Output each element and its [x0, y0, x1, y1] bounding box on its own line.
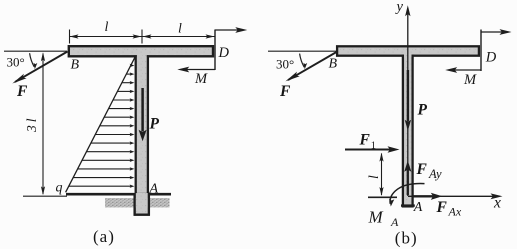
- svg-text:Ax: Ax: [448, 205, 462, 219]
- svg-text:30°: 30°: [7, 55, 25, 70]
- svg-text:B: B: [329, 57, 338, 72]
- svg-text:y: y: [395, 0, 404, 15]
- svg-text:3l: 3l: [24, 115, 39, 133]
- svg-text:F: F: [416, 161, 428, 178]
- svg-text:D: D: [485, 50, 497, 66]
- svg-text:x: x: [493, 195, 501, 212]
- svg-text:1: 1: [371, 141, 376, 152]
- svg-text:D: D: [218, 45, 230, 61]
- svg-text:P: P: [150, 116, 160, 133]
- svg-text:F: F: [359, 132, 371, 149]
- svg-text:A: A: [149, 182, 159, 197]
- svg-text:(b): (b): [395, 229, 418, 248]
- svg-text:M: M: [194, 71, 208, 87]
- svg-text:30°: 30°: [276, 57, 294, 72]
- svg-text:l: l: [178, 22, 182, 37]
- svg-text:P: P: [418, 102, 428, 119]
- svg-text:M: M: [368, 208, 384, 227]
- svg-text:(a): (a): [93, 227, 115, 246]
- svg-text:F: F: [279, 83, 291, 100]
- svg-text:M: M: [463, 72, 477, 88]
- svg-text:l: l: [105, 20, 109, 35]
- svg-text:B: B: [71, 58, 80, 73]
- svg-text:Ay: Ay: [428, 167, 442, 181]
- svg-text:F: F: [436, 199, 448, 216]
- svg-text:l: l: [366, 175, 381, 179]
- svg-text:A: A: [413, 200, 423, 215]
- svg-text:F: F: [16, 83, 28, 100]
- svg-text:q: q: [56, 181, 63, 196]
- svg-text:A: A: [390, 215, 399, 229]
